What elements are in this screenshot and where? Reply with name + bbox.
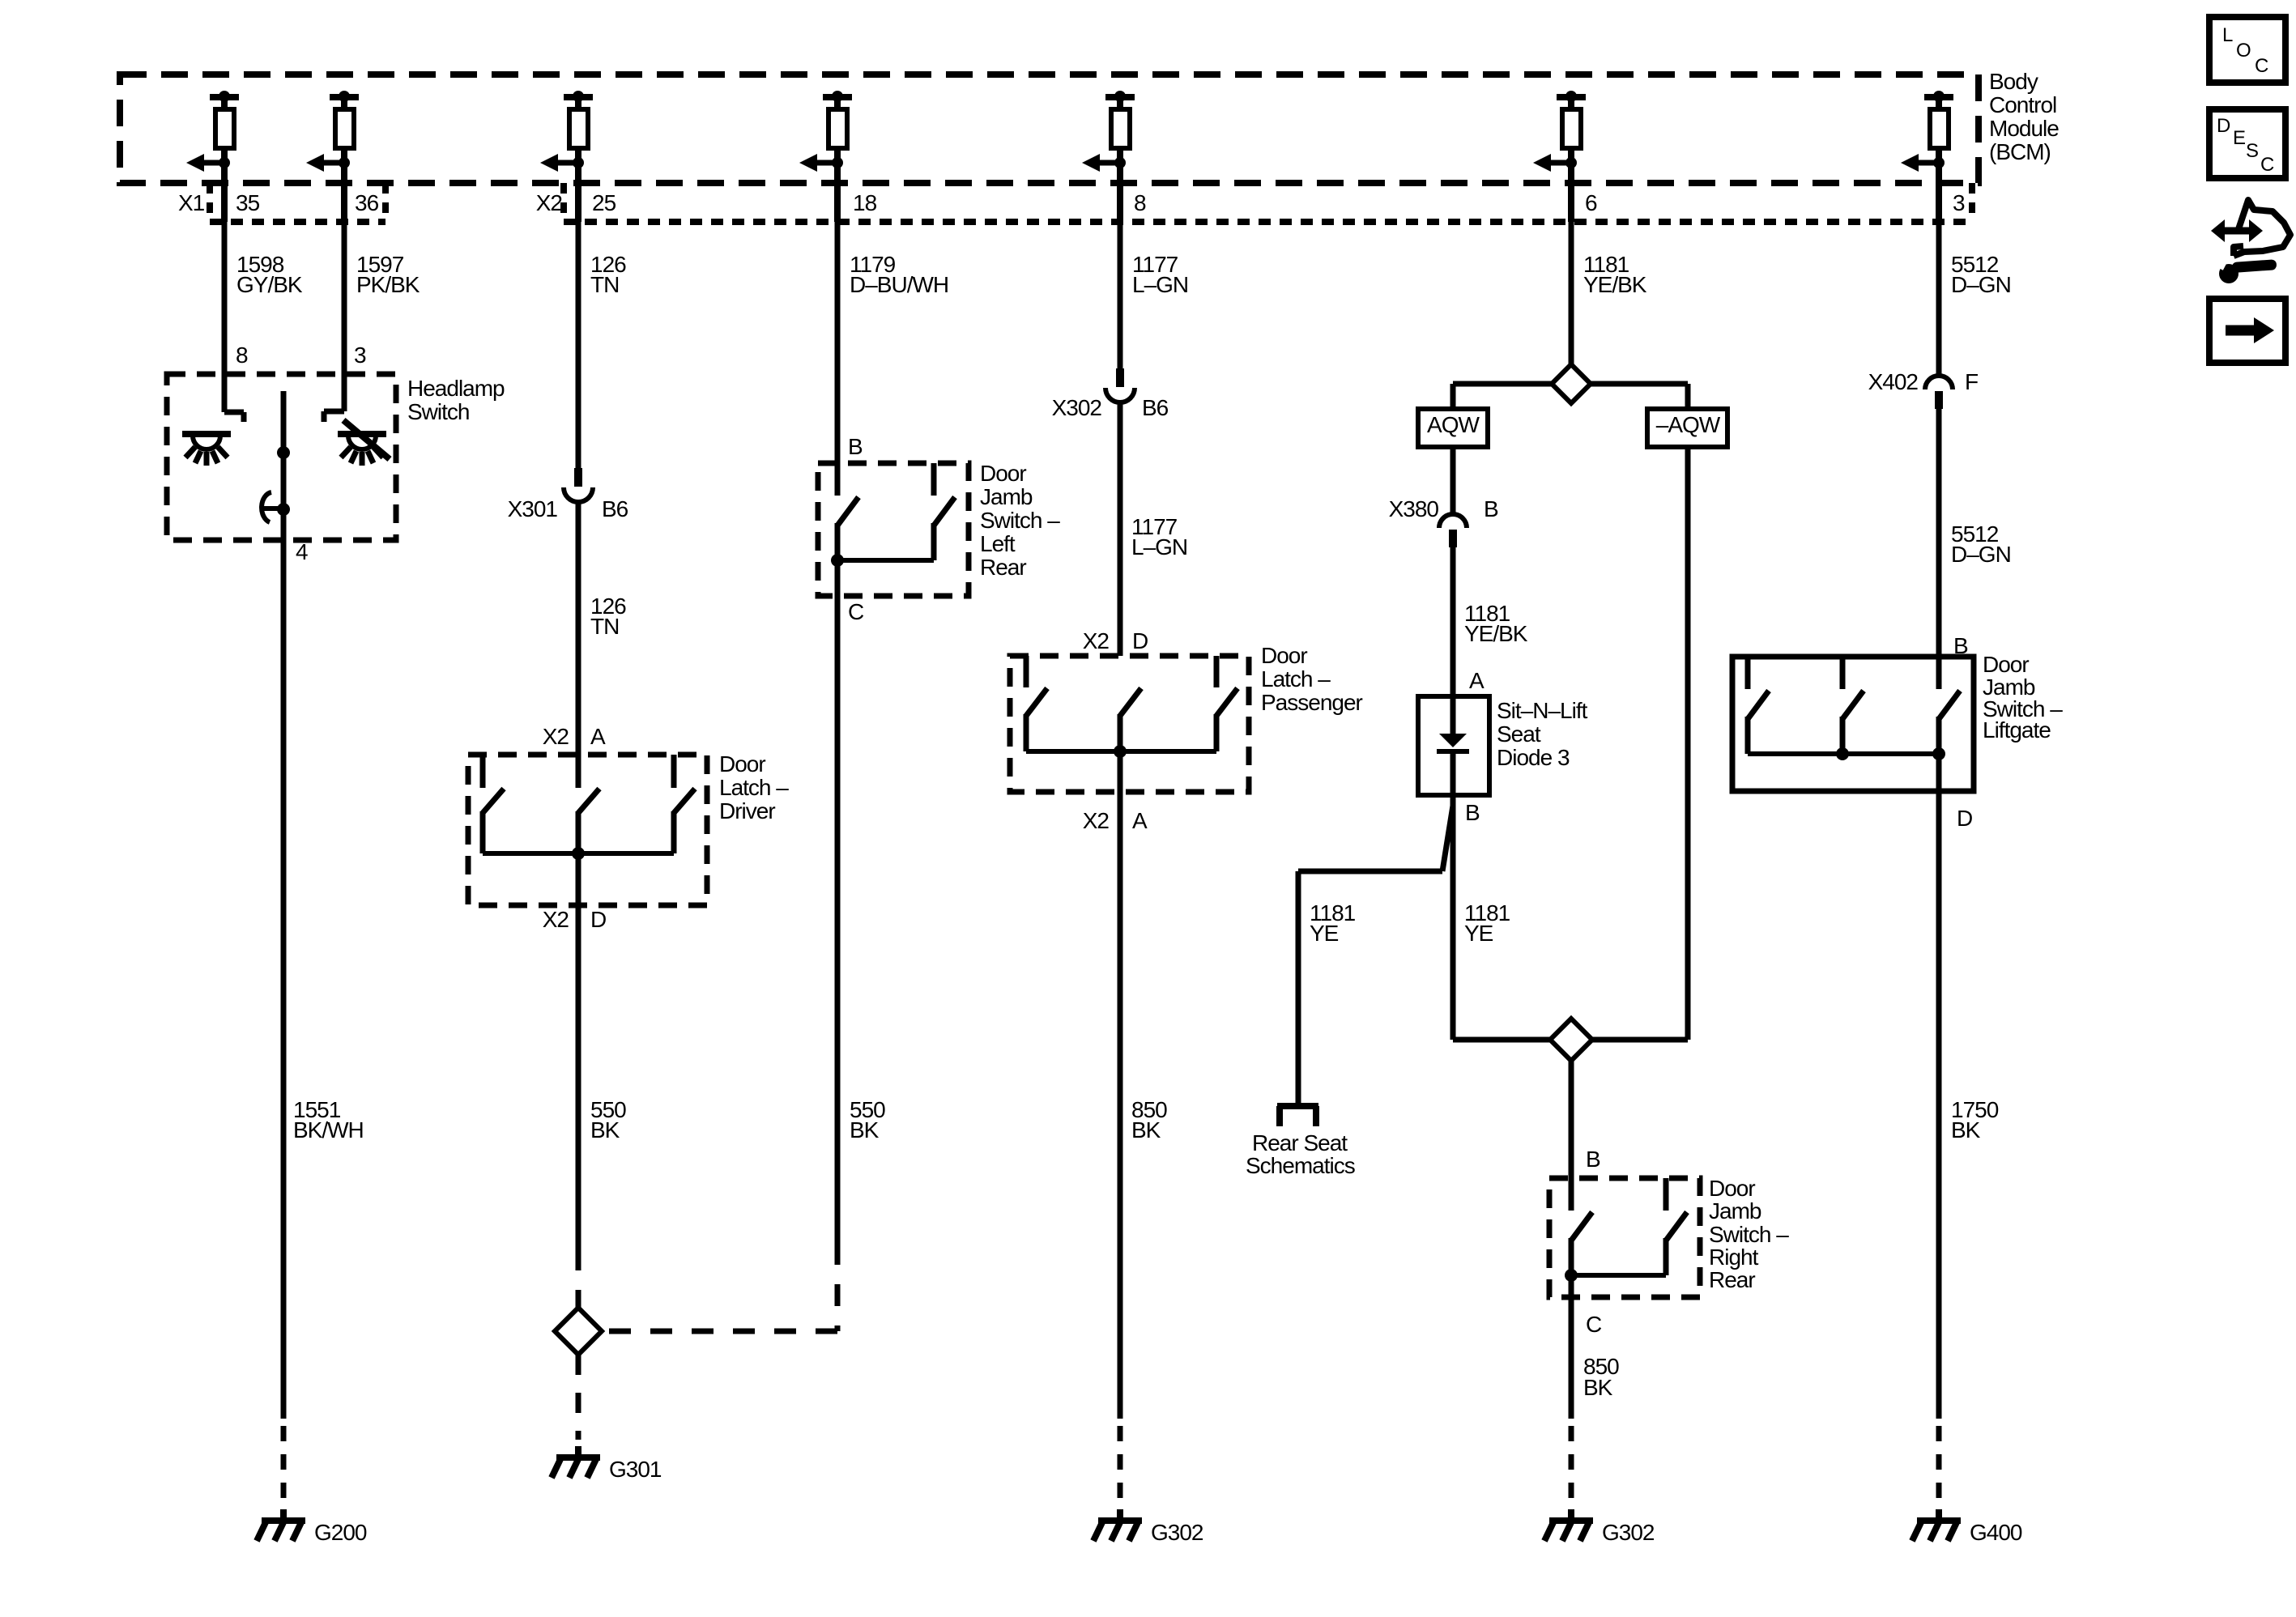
svg-text:X402: X402 xyxy=(1868,369,1919,394)
wire 1177 L-GN middle segment xyxy=(1118,402,1123,656)
Body Control Module (BCM) dashed box xyxy=(120,74,1979,183)
svg-text:C: C xyxy=(848,599,864,624)
svg-text:25: 25 xyxy=(592,190,616,215)
wire label 1181 YE/BK xyxy=(1583,252,1647,297)
svg-text:G302: G302 xyxy=(1151,1520,1203,1545)
left rear jamb switch pin C label xyxy=(848,599,864,624)
wire label 5512 D-GN (lower) xyxy=(1951,521,2011,567)
headlamp switch dashed box xyxy=(167,374,396,540)
connector X2-D label (passenger latch) xyxy=(1083,628,1148,653)
svg-text:Sit–N–Lift: Sit–N–Lift xyxy=(1497,698,1588,723)
svg-text:3: 3 xyxy=(1953,190,1965,215)
svg-text:B6: B6 xyxy=(1142,395,1169,420)
svg-text:Seat: Seat xyxy=(1497,721,1541,747)
svg-text:D: D xyxy=(1957,806,1972,831)
headlamp switch common wire xyxy=(277,391,290,540)
svg-text:Jamb: Jamb xyxy=(1709,1198,1761,1223)
wire 126 TN lower segment xyxy=(576,502,581,788)
door jamb switch right rear label xyxy=(1709,1176,1789,1292)
svg-text:O: O xyxy=(2236,40,2251,62)
liftgate jamb switch pin D label xyxy=(1957,806,1972,831)
svg-text:Headlamp: Headlamp xyxy=(407,376,505,401)
door latch driver dashed box xyxy=(468,755,707,905)
svg-text:BK: BK xyxy=(1583,1375,1613,1400)
door jamb switch left rear switches xyxy=(831,463,955,567)
headlamp switch lamp (head, slashed) xyxy=(338,420,390,466)
wire label 850 BK (right) xyxy=(1583,1354,1619,1400)
wire 1179 D-BU/WH upper segment xyxy=(835,222,841,463)
door latch driver switches xyxy=(483,755,695,860)
wire 1551 dashed to ground xyxy=(281,1426,287,1498)
connector X2-A label (driver latch) xyxy=(543,724,606,749)
svg-text:6: 6 xyxy=(1585,190,1597,215)
BCM output driver pin X2-25 xyxy=(540,91,593,222)
liftgate jamb switch pin B label xyxy=(1953,633,1968,658)
svg-text:Switch –: Switch – xyxy=(1709,1222,1789,1247)
wire 1750 BK dashed to ground xyxy=(1936,1426,1942,1498)
door latch passenger dashed box xyxy=(1010,656,1249,792)
wire 5512 D-GN upper segment xyxy=(1936,222,1942,376)
svg-text:Switch –: Switch – xyxy=(980,508,1060,533)
wire 550 BK (left rear jamb to splice) xyxy=(835,560,841,1243)
svg-text:X301: X301 xyxy=(508,496,558,521)
wire 550 BK (driver latch to splice) xyxy=(576,853,581,1249)
left rear jamb switch pin B label xyxy=(848,434,863,459)
svg-text:PK/BK: PK/BK xyxy=(356,272,420,297)
connector X380 labels xyxy=(1389,496,1498,521)
svg-text:G400: G400 xyxy=(1970,1520,2022,1545)
svg-text:BK/WH: BK/WH xyxy=(293,1117,364,1143)
svg-text:Right: Right xyxy=(1709,1245,1759,1270)
door latch passenger switches xyxy=(1026,656,1237,758)
door jamb switch left rear dashed box xyxy=(818,463,969,596)
door jamb switch liftgate switches xyxy=(1748,657,1960,760)
svg-text:X2: X2 xyxy=(1083,628,1110,653)
wire label 1179 D-BU/WH xyxy=(850,252,948,297)
BCM output driver pin X2-3 xyxy=(1901,91,1953,222)
svg-text:X2: X2 xyxy=(543,907,569,932)
connector X402 labels xyxy=(1868,369,1979,394)
svg-text:C: C xyxy=(1586,1312,1602,1337)
connector X2 box xyxy=(564,183,1972,222)
svg-text:A: A xyxy=(590,724,606,749)
BCM output driver pin X2-8 xyxy=(1082,91,1135,222)
wire 5512 D-GN middle segment xyxy=(1936,409,1942,657)
diode pin B label xyxy=(1465,800,1480,825)
label X1 xyxy=(178,190,205,215)
svg-text:D–GN: D–GN xyxy=(1951,272,2011,297)
svg-text:X380: X380 xyxy=(1389,496,1439,521)
pin 25 label xyxy=(592,190,616,215)
diode label xyxy=(1497,698,1588,770)
wire 1597 from X1-36 to headlamp switch pin 3 xyxy=(324,222,344,422)
wire label 1551 BK/WH xyxy=(293,1097,364,1143)
svg-text:TN: TN xyxy=(590,614,619,639)
BCM output driver pin X2-6 xyxy=(1533,91,1586,222)
svg-text:X2: X2 xyxy=(536,190,563,215)
door jamb switch liftgate solid box xyxy=(1732,657,1974,791)
svg-text:(BCM): (BCM) xyxy=(1989,139,2051,164)
svg-text:D: D xyxy=(590,907,606,932)
wire to AQW xyxy=(1453,384,1552,409)
svg-text:L–GN: L–GN xyxy=(1131,534,1187,560)
svg-text:35: 35 xyxy=(236,190,260,215)
wire label 1597 PK/BK xyxy=(356,252,420,297)
svg-text:Switch: Switch xyxy=(407,399,469,424)
legend icon LOC xyxy=(2209,17,2285,83)
wire label 1181 YE (main) xyxy=(1464,900,1510,946)
svg-text:YE: YE xyxy=(1464,921,1493,946)
svg-text:YE/BK: YE/BK xyxy=(1583,272,1647,297)
svg-text:X2: X2 xyxy=(1083,808,1110,833)
svg-text:D: D xyxy=(2217,115,2230,137)
right rear jamb switch pin B label xyxy=(1586,1147,1600,1172)
connector X380 xyxy=(1439,514,1467,547)
label X2 xyxy=(536,190,563,215)
legend icon connector end view xyxy=(2211,200,2290,283)
svg-text:X1: X1 xyxy=(178,190,205,215)
connector X402 xyxy=(1925,376,1953,409)
wire 850 BK dashed to ground xyxy=(1569,1426,1574,1498)
svg-text:Schematics: Schematics xyxy=(1246,1153,1355,1178)
ground G302 (passenger latch) xyxy=(1093,1509,1203,1545)
door jamb switch right rear switches xyxy=(1565,1178,1687,1282)
diode pin A label xyxy=(1469,668,1485,693)
wire label 550 BK (left) xyxy=(590,1097,626,1143)
pin 18 label xyxy=(853,190,877,215)
svg-text:L: L xyxy=(2222,24,2233,46)
svg-text:Body: Body xyxy=(1989,69,2038,94)
svg-text:Jamb: Jamb xyxy=(980,484,1033,509)
connector X301 xyxy=(564,468,593,502)
wire label 1181 YE/BK (lower) xyxy=(1464,601,1528,646)
svg-text:18: 18 xyxy=(853,190,877,215)
svg-text:4: 4 xyxy=(296,539,308,564)
svg-text:Liftgate: Liftgate xyxy=(1983,717,2051,743)
svg-text:D: D xyxy=(1132,628,1148,653)
svg-text:E: E xyxy=(2233,127,2245,149)
svg-text:L–GN: L–GN xyxy=(1132,272,1188,297)
svg-text:B: B xyxy=(1465,800,1480,825)
wire 1177 L-GN upper segment xyxy=(1118,222,1123,368)
svg-text:B: B xyxy=(1586,1147,1600,1172)
svg-text:GY/BK: GY/BK xyxy=(236,272,303,297)
svg-text:F: F xyxy=(1965,369,1978,394)
svg-text:G200: G200 xyxy=(314,1520,367,1545)
svg-text:Door: Door xyxy=(719,751,765,777)
wire 850 BK dashed to ground xyxy=(1118,1426,1123,1498)
svg-text:Door: Door xyxy=(980,461,1026,486)
dashed wire splice to G301 xyxy=(576,1355,581,1440)
right rear jamb switch pin C label xyxy=(1586,1312,1602,1337)
svg-text:Passenger: Passenger xyxy=(1261,690,1363,715)
wire 850 BK (passenger latch to ground) xyxy=(1118,751,1123,1419)
headlamp switch wiper contact xyxy=(261,492,283,522)
wire label 126 TN xyxy=(590,252,626,297)
wires into splice S2 xyxy=(1453,1037,1688,1043)
svg-text:TN: TN xyxy=(590,272,619,297)
wire AQW to X380 xyxy=(1450,447,1456,516)
connector X301 labels xyxy=(508,496,628,521)
svg-text:YE: YE xyxy=(1310,921,1339,946)
headlamp switch pin 4 label xyxy=(296,539,308,564)
BCM label xyxy=(1989,69,2059,164)
wire 1181 YE/BK upper segment xyxy=(1569,222,1574,364)
svg-text:B: B xyxy=(848,434,863,459)
svg-text:Rear: Rear xyxy=(980,555,1026,580)
splice diamond S1 (1181) xyxy=(1552,364,1591,403)
legend icon DESC xyxy=(2209,109,2285,178)
wire label 5512 D-GN xyxy=(1951,252,2011,297)
svg-text:Rear: Rear xyxy=(1709,1267,1755,1292)
pin 36 label xyxy=(355,190,379,215)
connector X2-D label (driver latch) xyxy=(543,907,606,932)
wire label 550 BK (right) xyxy=(850,1097,885,1143)
BCM output driver pin X1-36 xyxy=(306,91,359,222)
door jamb switch liftgate label xyxy=(1983,652,2063,743)
door jamb switch left rear label xyxy=(980,461,1060,580)
svg-text:D–GN: D–GN xyxy=(1951,542,2011,567)
rear seat schematics off-page stub xyxy=(1277,1106,1318,1126)
pin 8 label xyxy=(1134,190,1146,215)
svg-text:8: 8 xyxy=(236,343,248,368)
svg-text:G301: G301 xyxy=(609,1457,662,1482)
wire 1750 BK xyxy=(1936,754,1942,1419)
pin 3 label xyxy=(1953,190,1965,215)
svg-text:Door: Door xyxy=(1983,652,2029,677)
svg-text:X2: X2 xyxy=(543,724,569,749)
headlamp switch pin 8 label xyxy=(236,343,248,368)
svg-text:BK: BK xyxy=(590,1117,620,1143)
wire 1181 to right rear jamb switch xyxy=(1569,1061,1574,1178)
headlamp switch label xyxy=(407,376,505,424)
wire label 126 TN (lower) xyxy=(590,594,626,639)
wire label 1177 L-GN (lower) xyxy=(1131,514,1187,560)
BCM output driver pin X1-35 xyxy=(186,91,239,222)
svg-text:X302: X302 xyxy=(1052,395,1102,420)
svg-text:A: A xyxy=(1469,668,1485,693)
ground G301 xyxy=(552,1446,662,1482)
svg-text:BK: BK xyxy=(850,1117,880,1143)
svg-text:Latch –: Latch – xyxy=(719,775,789,800)
svg-text:3: 3 xyxy=(354,343,366,368)
sit-n-lift seat diode 3 box xyxy=(1418,696,1489,795)
wire 550 BK dashed to splice xyxy=(576,1249,581,1308)
wire 126 TN upper segment xyxy=(576,222,581,468)
net label box -AQW xyxy=(1647,409,1727,447)
headlamp switch pin 3 label xyxy=(354,343,366,368)
svg-text:Door: Door xyxy=(1261,643,1307,668)
svg-text:BK: BK xyxy=(1951,1117,1981,1143)
svg-text:8: 8 xyxy=(1134,190,1146,215)
svg-text:Rear Seat: Rear Seat xyxy=(1252,1130,1348,1155)
wire label 1598 GY/BK xyxy=(236,252,303,297)
svg-text:AQW: AQW xyxy=(1427,412,1480,437)
wire label 850 BK (left) xyxy=(1131,1097,1167,1143)
rear seat schematics label xyxy=(1246,1130,1355,1178)
svg-text:BK: BK xyxy=(1131,1117,1161,1143)
svg-text:B: B xyxy=(1484,496,1498,521)
connector X302 xyxy=(1105,368,1135,402)
svg-text:S: S xyxy=(2246,140,2258,162)
door latch passenger label xyxy=(1261,643,1363,715)
connector X302 labels xyxy=(1052,395,1169,420)
svg-text:C: C xyxy=(2255,55,2268,77)
wire to -AQW xyxy=(1591,384,1688,409)
svg-text:Diode 3: Diode 3 xyxy=(1497,745,1570,770)
headlamp switch lamp (park) xyxy=(182,434,231,466)
svg-text:YE/BK: YE/BK xyxy=(1464,621,1528,646)
wire label 1177 L-GN xyxy=(1132,252,1188,297)
connector X2-A label (passenger latch) xyxy=(1083,808,1148,833)
wire 1551 BK/WH xyxy=(281,540,287,1419)
svg-text:B6: B6 xyxy=(602,496,628,521)
svg-text:A: A xyxy=(1132,808,1148,833)
net label box AQW xyxy=(1418,409,1488,447)
wire label 1181 YE (branch) xyxy=(1310,900,1356,946)
wire 1181 YE branch to rear seat schematics xyxy=(1298,806,1453,1106)
wire 1181 YE from diode down xyxy=(1450,795,1456,1040)
diode symbol xyxy=(1437,696,1469,795)
dashed wire to G301 splice xyxy=(602,1243,837,1331)
wire 1181 YE/BK to diode xyxy=(1450,547,1456,695)
pin 35 label xyxy=(236,190,260,215)
svg-text:Latch –: Latch – xyxy=(1261,666,1331,691)
svg-text:36: 36 xyxy=(355,190,379,215)
BCM output driver pin X2-18 xyxy=(799,91,852,222)
svg-text:Door: Door xyxy=(1709,1176,1755,1201)
svg-text:Module: Module xyxy=(1989,116,2059,141)
ground G302 (right rear jamb) xyxy=(1544,1509,1655,1545)
wire 1598 from X1-35 to headlamp switch pin 8 xyxy=(224,222,244,422)
ground G400 xyxy=(1912,1509,2022,1545)
wire 850 BK lower segment xyxy=(1569,1275,1574,1419)
splice diamond S2 (1181) xyxy=(1550,1019,1592,1061)
wire label 1750 BK xyxy=(1951,1097,1999,1143)
connector X1 box xyxy=(210,183,386,222)
legend icon forward arrow xyxy=(2209,299,2285,363)
svg-text:D–BU/WH: D–BU/WH xyxy=(850,272,948,297)
svg-text:–AQW: –AQW xyxy=(1656,412,1721,437)
svg-text:Driver: Driver xyxy=(719,798,775,823)
door jamb switch right rear dashed box xyxy=(1549,1178,1700,1297)
svg-text:G302: G302 xyxy=(1602,1520,1655,1545)
ground G200 xyxy=(257,1509,367,1545)
wire -AQW down xyxy=(1685,447,1691,1040)
door latch driver label xyxy=(719,751,789,823)
pin 6 label xyxy=(1585,190,1597,215)
svg-text:C: C xyxy=(2260,154,2274,176)
splice diamond at G301 xyxy=(555,1308,602,1355)
svg-text:Control: Control xyxy=(1989,92,2056,117)
svg-text:Left: Left xyxy=(980,531,1016,556)
